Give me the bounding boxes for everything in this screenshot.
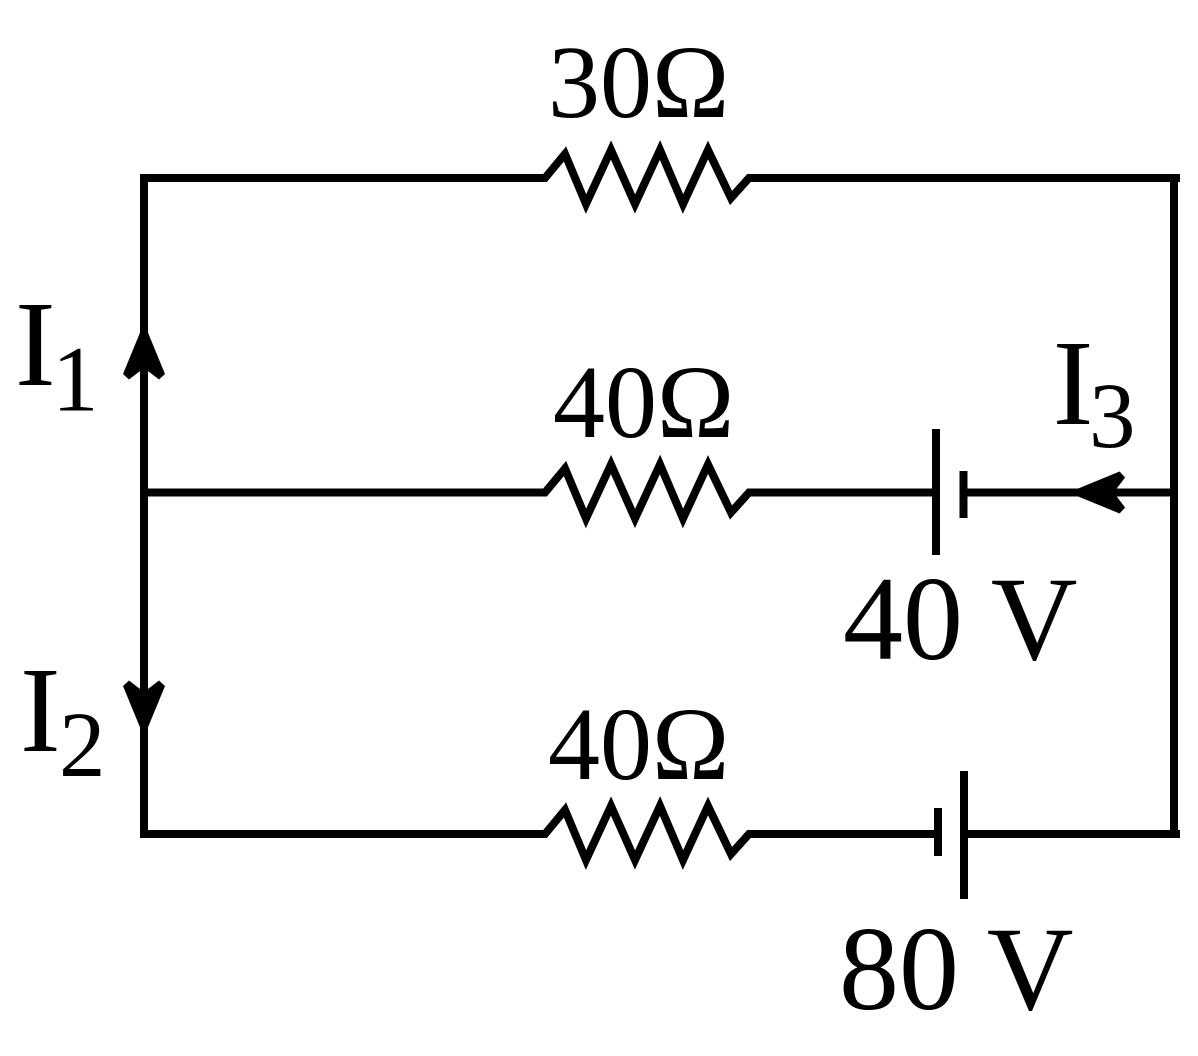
wire middle right segment [964,489,1175,497]
resistor R2 40ohm [539,465,755,519]
svg-text:I: I [1053,316,1094,451]
svg-text:30Ω: 30Ω [548,25,729,140]
battery B2 80V short plate [934,808,942,856]
resistor R1 30ohm [539,150,755,204]
svg-text:80 V: 80 V [839,902,1074,1035]
arrow I1 up [123,332,165,380]
wire top left segment [140,174,546,182]
wire middle left segment [144,489,546,497]
wire middle centre segment [754,489,936,497]
arrow I3 left [1078,472,1126,514]
svg-text:40 V: 40 V [843,552,1078,685]
wire left vertical branch [140,178,148,834]
svg-text:I: I [20,643,61,778]
battery B1 40V short plate [960,471,968,518]
wire top right segment [754,174,1180,182]
resistor R3 40ohm [539,806,755,860]
battery B2 80V long plate [960,771,968,899]
svg-text:3: 3 [1089,365,1136,468]
wire bottom centre segment [754,830,938,838]
arrow I2 down [123,681,165,729]
svg-text:40Ω: 40Ω [553,345,734,460]
battery B1 40V long plate [932,429,940,555]
svg-text:2: 2 [59,694,106,797]
svg-text:I: I [15,277,56,412]
svg-text:1: 1 [52,329,99,432]
wire bottom left segment [140,830,546,838]
wire right vertical branch [1170,178,1178,834]
svg-text:40Ω: 40Ω [548,687,729,802]
wire bottom right segment [964,830,1180,838]
